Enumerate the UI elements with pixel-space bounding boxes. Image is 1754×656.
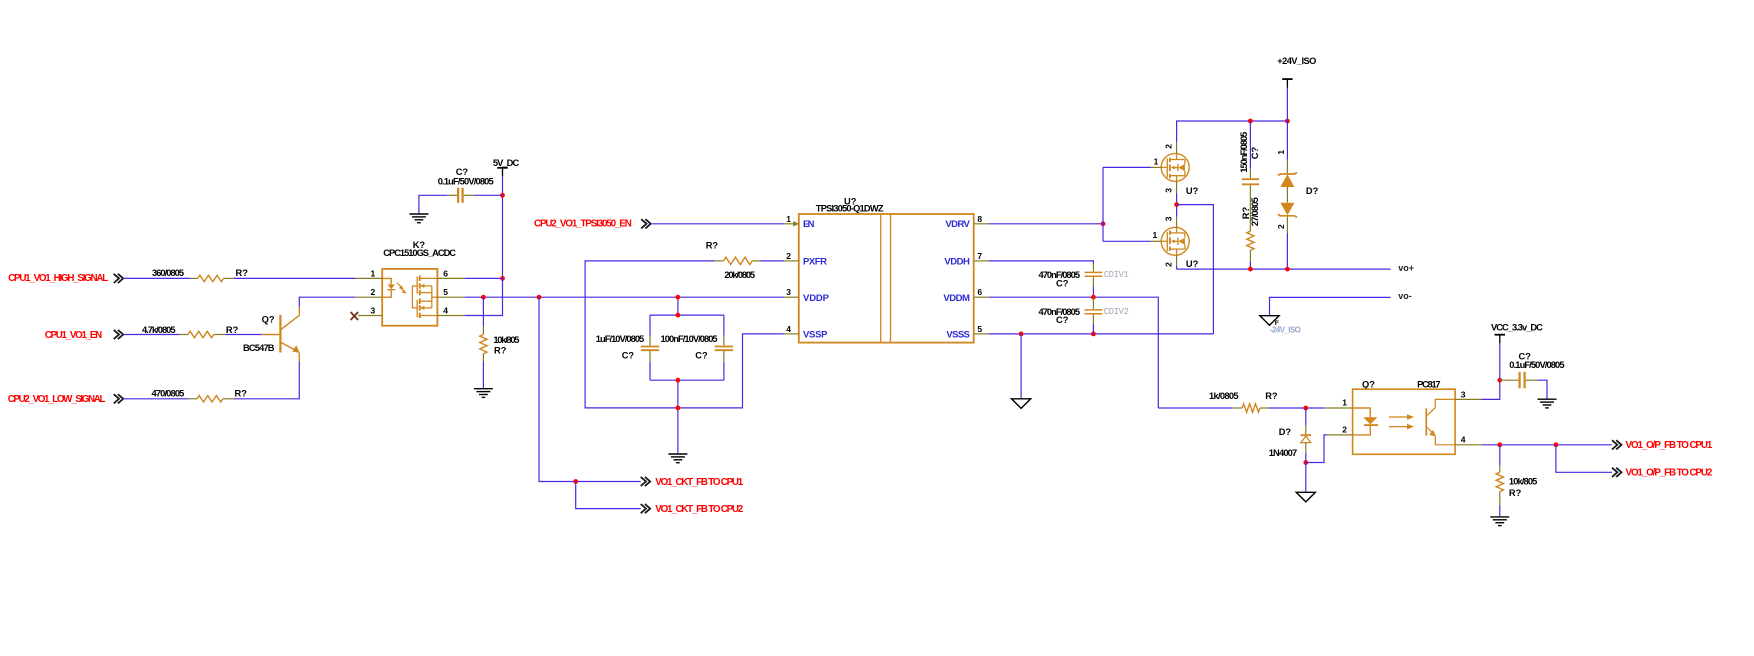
svg-text:TPSI3050-Q1DWZ: TPSI3050-Q1DWZ [816,204,884,214]
svg-text:2: 2 [1163,262,1173,267]
ground [1490,517,1509,526]
diode D? (TVS pair) [1276,121,1319,269]
wire [651,223,784,225]
wire [475,194,503,196]
wire [299,297,355,307]
svg-text:0.1uF/50V/0805: 0.1uF/50V/0805 [1509,360,1564,370]
resistor R? 360/0805 [152,268,248,282]
svg-text:100nF/10V/0805: 100nF/10V/0805 [661,334,718,344]
svg-text:R?: R? [706,241,719,251]
wire [465,277,503,279]
junction [1091,332,1096,337]
svg-text:VO1_O/P_FB TO CPU1: VO1_O/P_FB TO CPU1 [1626,440,1713,451]
junction [1285,267,1290,272]
svg-text:4: 4 [786,324,791,334]
svg-text:150nF/0805: 150nF/0805 [1239,132,1249,173]
svg-text:C?: C? [622,351,635,361]
junction [1303,460,1308,465]
svg-text:CPU1_VO1_EN: CPU1_VO1_EN [45,330,102,341]
junction [573,479,578,484]
wire [1556,445,1612,473]
svg-text:1: 1 [370,268,375,278]
svg-text:Q?: Q? [262,315,275,325]
wire [123,277,190,279]
wire PXFR to VSSP loop [585,261,783,408]
wire [225,334,262,336]
svg-text:C?: C? [1056,315,1069,325]
svg-text:VSSP: VSSP [803,329,828,340]
capacitor C? 0.1uF/50V/0805 [1500,352,1565,389]
capacitor C? 470nF/0805 CDIV2 [1039,297,1129,334]
svg-text:CDIV1: CDIV1 [1104,270,1129,280]
wire [123,334,180,336]
junction [1174,202,1179,207]
svg-text:R?: R? [494,345,507,355]
port connector CPU1_VO1_HIGH_SIGNAL [114,274,124,283]
junction [1285,119,1290,124]
svg-text:C?: C? [1250,146,1260,159]
wire [482,297,484,326]
junction [676,295,681,300]
svg-text:3: 3 [1163,216,1173,221]
svg-text:27/0805: 27/0805 [1250,197,1260,226]
ground [1538,399,1557,408]
wire VO1_CKT_FB [539,297,641,481]
svg-text:3: 3 [786,287,791,297]
svg-text:CPU2_VO1_TPSI3050_EN: CPU2_VO1_TPSI3050_EN [534,219,632,230]
wire [760,260,783,262]
svg-text:-24V_ISO: -24V_ISO [1270,325,1301,334]
junction [1091,295,1096,300]
svg-text:EN: EN [803,219,815,230]
node CPU2_VO1_TPSI3050_EN [534,219,632,230]
wire [1177,268,1391,270]
node VO- [1398,291,1412,301]
wire VO+ rail [1176,266,1178,270]
junction [1497,378,1502,383]
port connector CPU2_VO1_TPSI3050_EN [641,219,651,228]
svg-text:C?: C? [1056,279,1069,289]
svg-text:VO1_CKT_FB TO CPU1: VO1_CKT_FB TO CPU1 [655,477,743,488]
node VO+ [1398,263,1414,273]
wire [1499,445,1501,465]
svg-text:1: 1 [1342,398,1347,408]
svg-text:10k/805: 10k/805 [493,335,519,345]
svg-text:R?: R? [1265,391,1278,401]
junction [1248,119,1253,124]
wire [1020,334,1022,398]
port connector CPU2_VO1_LOW_SIGNAL [114,394,124,403]
wire [1269,407,1325,409]
wire [1103,166,1151,168]
power +24V_ISO [1277,56,1316,88]
node CPU2_VO1_LOW_SIGNAL [8,394,106,405]
capacitor C? 100nF/10V/0805 [661,315,734,380]
wire [1306,435,1327,463]
svg-text:2: 2 [370,287,375,297]
junction [676,378,681,383]
transistor U? (bottom MOSFET) [1151,216,1199,269]
wire [1249,261,1251,269]
svg-text:2: 2 [786,251,791,261]
wire [1537,380,1547,398]
wire VSSS row [989,333,1213,335]
svg-text:1: 1 [786,214,791,224]
resistor R? 20k/0805 [706,241,761,280]
svg-text:1: 1 [1276,150,1286,155]
wire [1103,240,1151,242]
port connector VO1_O/P_FB TO CPU1 [1612,440,1713,451]
svg-text:VCC_3.3v_DC: VCC_3.3v_DC [1491,322,1543,332]
wire [465,278,503,315]
wire cap top rail [650,314,724,316]
junction [1554,442,1559,447]
junction [1303,406,1308,411]
svg-text:5: 5 [977,324,982,334]
capacitor C? 150nF/0805 [1239,121,1260,184]
power -24V_ISO [1260,316,1301,335]
junction [676,313,681,318]
svg-text:6: 6 [977,287,982,297]
resistor R? 10k/805 [480,326,520,361]
junction [1248,267,1253,272]
wire [502,176,504,278]
svg-text:1N4007: 1N4007 [1269,448,1298,458]
wire VDDM [989,297,1158,408]
svg-text:6: 6 [443,268,448,278]
wire [234,277,356,279]
svg-text:VO1_CKT_FB TO CPU2: VO1_CKT_FB TO CPU2 [655,504,743,515]
svg-text:1uF/10V/0805: 1uF/10V/0805 [596,334,644,344]
resistor R? 10k/805 [1496,465,1537,505]
svg-text:BC547B: BC547B [243,343,275,353]
port connector CPU1_VO1_EN [114,330,124,339]
junction [676,406,681,411]
svg-text:CPC1510GS_ACDC: CPC1510GS_ACDC [383,248,456,258]
svg-text:VO1_O/P_FB TO CPU2: VO1_O/P_FB TO CPU2 [1626,467,1713,478]
node CPU1_VO1_HIGH_SIGNAL [8,273,108,284]
junction [1019,332,1024,337]
svg-text:R?: R? [235,389,248,399]
svg-text:PC817: PC817 [1417,380,1441,390]
svg-text:1: 1 [1154,156,1159,166]
wire [1286,88,1288,122]
optocoupler K? CPC1510GS_ACDC [355,240,464,325]
wire [677,380,679,453]
svg-text:1k/0805: 1k/0805 [1209,391,1239,401]
wire [419,195,447,213]
svg-text:R?: R? [226,325,239,335]
capacitor C? 1uF/10V/0805 [596,315,659,380]
wire VO- rail [1270,297,1391,315]
svg-text:C?: C? [695,351,708,361]
resistor R? 4.7k/0805 [142,325,239,338]
wire [1481,380,1499,399]
wire [465,296,784,298]
port connector VO1_CKT_FB TO CPU1 [641,477,744,488]
svg-text:C?: C? [456,167,469,177]
svg-text:0.1uF/50V/0805: 0.1uF/50V/0805 [438,177,494,187]
port connector VO1_O/P_FB TO CPU2 [1612,467,1713,478]
svg-text:470/0805: 470/0805 [152,389,185,399]
diode D? 1N4007 [1269,408,1311,463]
svg-text:4: 4 [443,306,448,316]
wire [482,361,484,388]
svg-text:3: 3 [1461,389,1466,399]
svg-text:5: 5 [443,287,448,297]
svg-text:2: 2 [1276,224,1286,229]
svg-text:VSSS: VSSS [946,329,970,340]
resistor R? 1k/0805 [1209,391,1278,412]
svg-text:CPU1_VO1_HIGH_SIGNAL: CPU1_VO1_HIGH_SIGNAL [8,273,108,284]
wire pin4 row [1481,444,1612,446]
ground [668,454,687,463]
ground [1296,492,1315,502]
svg-text:3: 3 [1163,188,1173,193]
svg-text:VDRV: VDRV [945,219,970,230]
capacitor C? 0.1uF/50V/0805 [438,167,494,203]
svg-text:vo+: vo+ [1398,263,1414,273]
wire VDRV to gates [989,223,1103,225]
wire gate bus [1102,167,1104,241]
svg-text:D?: D? [1279,427,1292,437]
junction [537,295,542,300]
svg-text:2: 2 [1163,144,1173,149]
junction [1497,442,1502,447]
wire [1305,463,1307,492]
wire +24V rail [1177,121,1288,142]
svg-text:4.7k/0805: 4.7k/0805 [142,325,176,335]
svg-text:PXFR: PXFR [803,256,827,267]
wire [1499,505,1501,516]
transistor Q? BC547B [243,307,300,362]
wire [123,398,189,400]
junction [481,295,486,300]
svg-text:1: 1 [1152,230,1157,240]
wire [1158,407,1233,409]
op-amp U? TPSI3050-Q1DWZ [784,196,990,342]
svg-text:Q?: Q? [1362,380,1375,390]
svg-text:U?: U? [1186,186,1199,196]
wire VDDH [989,261,1093,264]
svg-text:vo-: vo- [1398,291,1412,301]
ground [409,214,428,223]
optocoupler Q? PC817 [1325,380,1482,455]
svg-text:8: 8 [977,214,982,224]
capacitor C? 470nF/0805 CDIV1 [1039,264,1129,298]
wire [576,482,641,509]
power VCC_3.3v_DC [1491,322,1543,343]
ground [474,389,493,398]
power 5V_DC [493,158,520,176]
svg-text:D?: D? [1306,186,1319,196]
wire source link [1176,193,1178,217]
svg-text:U?: U? [1186,259,1199,269]
svg-text:3: 3 [370,306,375,316]
junction [1101,221,1106,226]
node CPU1_VO1_EN [45,330,102,341]
resistor R? 27/0805 [1241,185,1260,261]
svg-text:5V_DC: 5V_DC [493,158,520,168]
wire to VSSS [1177,205,1214,334]
svg-text:VDDP: VDDP [803,293,830,304]
svg-text:10k/805: 10k/805 [1509,476,1537,486]
svg-text:20k/0805: 20k/0805 [724,270,755,280]
junction [500,193,505,198]
svg-text:R?: R? [1509,488,1522,498]
svg-text:CDIV2: CDIV2 [1104,307,1129,317]
junction [500,276,505,281]
svg-text:7: 7 [977,251,982,261]
port connector VO1_CKT_FB TO CPU2 [641,504,744,515]
svg-text:+24V_ISO: +24V_ISO [1277,56,1316,66]
wire [677,297,679,315]
svg-text:VDDH: VDDH [944,256,970,267]
resistor R? 470/0805 [152,389,248,402]
svg-text:CPU2_VO1_LOW_SIGNAL: CPU2_VO1_LOW_SIGNAL [8,394,106,405]
transistor U? (top MOSFET) [1151,142,1199,195]
no-connect X on K? pin 3 [351,312,359,320]
wire cap bottom rail [650,379,724,381]
ground (VSSS) [1012,399,1031,409]
svg-text:4: 4 [1461,435,1466,445]
svg-text:360/0805: 360/0805 [152,268,184,278]
wire [1499,343,1501,380]
svg-text:2: 2 [1342,425,1347,435]
wire [233,361,299,398]
svg-text:R?: R? [236,268,249,278]
svg-text:VDDM: VDDM [943,293,970,304]
